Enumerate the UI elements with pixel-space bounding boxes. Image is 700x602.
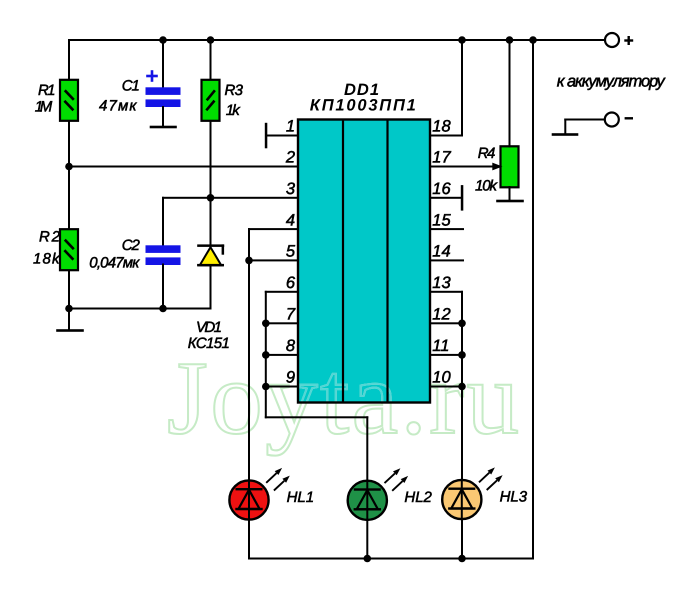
svg-text:0,047мк: 0,047мк <box>89 255 140 272</box>
svg-text:КП1003ПП1: КП1003ПП1 <box>310 97 416 115</box>
svg-text:9: 9 <box>286 369 295 387</box>
svg-text:13: 13 <box>432 274 451 292</box>
svg-text:R2: R2 <box>39 229 61 246</box>
svg-text:14: 14 <box>432 243 450 261</box>
svg-text:КС151: КС151 <box>188 335 230 352</box>
svg-text:1k: 1k <box>226 102 242 119</box>
svg-text:HL3: HL3 <box>500 489 528 506</box>
svg-text:1: 1 <box>286 118 295 136</box>
svg-text:3: 3 <box>286 180 296 198</box>
svg-text:4: 4 <box>286 211 295 229</box>
svg-text:16: 16 <box>432 180 451 198</box>
svg-text:HL1: HL1 <box>287 489 315 506</box>
svg-text:10k: 10k <box>475 177 499 194</box>
svg-text:1M: 1M <box>35 99 53 116</box>
svg-text:VD1: VD1 <box>196 319 222 336</box>
svg-text:R1: R1 <box>38 82 56 99</box>
svg-text:5: 5 <box>286 243 296 261</box>
svg-text:C2: C2 <box>122 237 141 254</box>
svg-text:2: 2 <box>285 149 295 167</box>
svg-text:18: 18 <box>432 118 451 136</box>
svg-text:C1: C1 <box>122 77 140 94</box>
svg-text:R4: R4 <box>478 145 496 162</box>
svg-text:HL2: HL2 <box>404 489 432 506</box>
svg-text:R3: R3 <box>225 82 244 99</box>
svg-text:10: 10 <box>432 369 451 387</box>
svg-text:17: 17 <box>432 149 451 167</box>
svg-text:7: 7 <box>286 306 296 324</box>
svg-text:12: 12 <box>432 306 450 324</box>
svg-text:47мк: 47мк <box>99 97 137 114</box>
svg-text:11: 11 <box>432 337 449 355</box>
svg-text:6: 6 <box>286 274 296 292</box>
svg-text:8: 8 <box>286 337 296 355</box>
svg-text:18k: 18k <box>33 251 61 268</box>
svg-text:15: 15 <box>432 211 451 229</box>
svg-text:к аккумулятору: к аккумулятору <box>557 73 667 91</box>
